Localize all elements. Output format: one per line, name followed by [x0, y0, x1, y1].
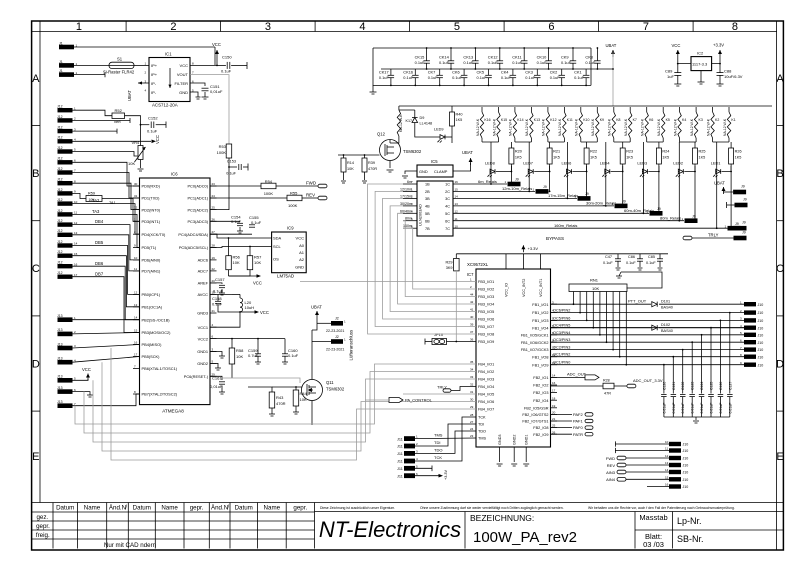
svg-text:10K: 10K: [236, 354, 243, 359]
svg-text:VCC: VCC: [180, 63, 189, 68]
svg-text:NA-12 W-K: NA-12 W-K: [575, 118, 579, 136]
svg-text:C150: C150: [222, 55, 232, 60]
svg-text:R40: R40: [456, 113, 463, 117]
svg-text:Datum: Datum: [235, 505, 253, 512]
svg-text:0.1uF: 0.1uF: [603, 261, 613, 265]
svg-text:CK13: CK13: [463, 55, 473, 60]
svg-text:13: 13: [134, 303, 138, 307]
svg-text:K14: K14: [517, 118, 523, 122]
resistor R26 1K5: [729, 148, 734, 164]
wire IC2 out: [712, 57, 720, 64]
svg-text:PC6(RESET-): PC6(RESET-): [184, 374, 209, 379]
svg-text:0.1uF: 0.1uF: [288, 353, 299, 358]
wire IC1 GND: [190, 92, 198, 97]
svg-text:J12: J12: [57, 146, 63, 150]
svg-text:J12: J12: [57, 136, 63, 140]
svg-text:TCK: TCK: [434, 455, 442, 460]
svg-text:10K: 10K: [347, 167, 354, 171]
svg-text:FWD: FWD: [606, 456, 615, 461]
svg-text:AIN4: AIN4: [606, 477, 616, 482]
capacitor C123: [691, 342, 693, 393]
resistor network RN1 body: [569, 284, 627, 292]
resistor network K13: [530, 112, 533, 138]
svg-text:Q12: Q12: [377, 132, 386, 137]
svg-text:J11: J11: [397, 445, 403, 449]
svg-text:NA-12 W-K: NA-12 W-K: [723, 118, 727, 136]
resistor R55: [210, 197, 287, 199]
resistor network K1: [727, 112, 731, 138]
connector J13 pin3: [58, 346, 73, 351]
net label TA2 to IC6 PD4: [73, 204, 140, 235]
svg-text:PB2(SS-/OC1B): PB2(SS-/OC1B): [142, 317, 171, 322]
wire GND2: [210, 363, 218, 368]
net label DB5 to IC6 PB0: [73, 246, 140, 295]
svg-text:ADC_OUT: ADC_OUT: [567, 372, 587, 377]
power UBAT at Q11: [316, 311, 318, 318]
svg-text:Datum: Datum: [133, 505, 151, 512]
connector J12 pin15: [58, 254, 73, 258]
net TCK: [415, 417, 476, 461]
svg-text:10K: 10K: [254, 260, 261, 265]
svg-text:J9: J9: [742, 231, 746, 235]
svg-text:R56: R56: [233, 255, 241, 260]
svg-text:BAS40: BAS40: [661, 306, 673, 310]
wire J10 row1: [615, 443, 669, 445]
resistor R43: [269, 392, 275, 408]
svg-text:PTT_OUT: PTT_OUT: [628, 299, 647, 304]
svg-text:C86: C86: [628, 255, 635, 259]
relay rail top: [399, 105, 772, 107]
svg-text:FB2_IO5/GSR: FB2_IO5/GSR: [524, 406, 549, 410]
connector J9 TRLY: [734, 236, 747, 241]
resistor network K15: [497, 112, 500, 138]
svg-text:OS: OS: [273, 257, 279, 262]
svg-text:16: 16: [455, 180, 459, 184]
svg-text:7: 7: [643, 21, 649, 33]
svg-text:44: 44: [470, 293, 474, 297]
svg-text:17: 17: [134, 353, 138, 357]
svg-text:4: 4: [359, 21, 365, 33]
wire resnet pair join: [680, 141, 697, 143]
svg-text:3K9: 3K9: [446, 266, 453, 270]
svg-text:NA-12 W-K: NA-12 W-K: [690, 118, 694, 136]
svg-text:TA1: TA1: [109, 201, 116, 205]
svg-text:C122: C122: [681, 382, 685, 390]
svg-text:1K5: 1K5: [662, 156, 669, 160]
svg-text:PAF1: PAF1: [573, 419, 583, 424]
svg-text:R57: R57: [254, 255, 262, 260]
svg-text:Ohne unsere Zustimmung darf si: Ohne unsere Zustimmung darf sie weder ve…: [420, 506, 564, 510]
svg-text:K9: K9: [600, 118, 604, 122]
svg-text:K2: K2: [715, 118, 719, 122]
power UBAT feeding cap bank: [612, 50, 614, 57]
resistor R22 1K5: [584, 148, 589, 164]
net TMS: [415, 437, 476, 440]
svg-text:CK15: CK15: [415, 55, 425, 60]
svg-text:12: 12: [74, 221, 78, 225]
wire J12-13 to IC6 PD7: [73, 235, 140, 271]
capacitor C155: [210, 233, 252, 235]
svg-text:12m-10m_Relais: 12m-10m_Relais: [502, 186, 532, 191]
svg-text:J10: J10: [758, 311, 764, 315]
svg-text:100K: 100K: [264, 191, 274, 196]
svg-text:FB1_I/O8: FB1_I/O8: [532, 355, 548, 359]
svg-text:J12: J12: [57, 198, 63, 202]
svg-text:31: 31: [134, 194, 138, 198]
svg-text:PD1(TXD): PD1(TXD): [142, 196, 161, 201]
wire LED LED1 to relay row: [716, 172, 718, 229]
svg-text:Lüfteranschluss: Lüfteranschluss: [349, 329, 354, 361]
svg-text:0.01uF: 0.01uF: [710, 403, 714, 414]
connector J2 fan 1: [331, 321, 343, 326]
svg-text:33: 33: [470, 375, 474, 379]
svg-text:80m: 80m: [405, 217, 412, 221]
wire J11-5 ground: [415, 467, 432, 469]
wire relay row 160m_Relais: [453, 227, 727, 229]
net label DB6 to IC6 PB2: [73, 266, 140, 320]
svg-text:28: 28: [212, 244, 216, 248]
svg-text:C126: C126: [719, 382, 723, 390]
svg-text:VCC2: VCC2: [198, 336, 208, 341]
net PA_CONTROL: [389, 398, 403, 403]
svg-text:OC1/PIN0: OC1/PIN0: [553, 361, 570, 365]
svg-text:IC1: IC1: [165, 52, 172, 57]
svg-text:16: 16: [552, 381, 556, 385]
svg-text:K6: K6: [649, 118, 653, 122]
svg-text:NA-12 W-K: NA-12 W-K: [525, 118, 529, 136]
svg-text:FB3_I/O7: FB3_I/O7: [478, 325, 494, 329]
svg-text:J12: J12: [57, 219, 63, 223]
svg-text:R53: R53: [219, 144, 227, 149]
IC7 right pin stubs and numbers: [551, 303, 558, 305]
wire IC5 gnd: [405, 171, 417, 174]
svg-text:17: 17: [74, 273, 78, 277]
svg-text:NA-12 W-K: NA-12 W-K: [608, 118, 612, 136]
wire J12-6 to IC6 PD0: [73, 162, 140, 186]
svg-text:10K: 10K: [128, 161, 135, 166]
svg-text:IC2: IC2: [697, 51, 704, 56]
svg-text:PATR: PATR: [573, 432, 583, 437]
svg-text:J13: J13: [57, 357, 63, 361]
svg-text:DB4: DB4: [95, 219, 104, 224]
svg-text:23: 23: [212, 182, 216, 186]
svg-text:31: 31: [470, 390, 474, 394]
RN1 output verticals: [573, 292, 575, 305]
fuse S1: [109, 62, 134, 68]
cap bank ground rail: [664, 416, 730, 418]
svg-text:D: D: [776, 359, 784, 371]
svg-text:TMS: TMS: [478, 437, 486, 441]
resistor network K17: [397, 110, 400, 136]
wire R59 to IC6 PD3: [102, 199, 140, 222]
net TDI: [415, 424, 476, 446]
svg-text:E: E: [776, 451, 783, 463]
svg-text:11: 11: [134, 267, 137, 271]
resistor R57 pullup: [247, 256, 253, 270]
connector J12 pin14: [58, 243, 73, 247]
svg-text:23: 23: [470, 434, 474, 438]
frame column numbers: [76, 21, 738, 33]
svg-text:J12: J12: [57, 178, 63, 182]
svg-text:Datum: Datum: [56, 505, 74, 512]
svg-text:1: 1: [76, 21, 82, 33]
svg-text:22-23-2021: 22-23-2021: [326, 347, 344, 351]
wire relay row 30m-20m_Relais: [453, 205, 614, 207]
svg-text:R24: R24: [662, 150, 669, 154]
svg-text:FB1_I/O6/GCK2: FB1_I/O6/GCK2: [521, 341, 549, 345]
svg-text:J11: J11: [397, 437, 403, 441]
power VCC at IC1: [216, 50, 218, 57]
svg-text:A: A: [776, 73, 784, 85]
svg-text:FB2_IO7/GTS1: FB2_IO7/GTS1: [522, 420, 548, 424]
svg-text:REV: REV: [607, 463, 616, 468]
svg-text:PB1(OC1A): PB1(OC1A): [142, 305, 163, 310]
svg-text:16: 16: [665, 483, 669, 487]
svg-text:CK3: CK3: [525, 70, 533, 75]
svg-text:10: 10: [134, 256, 138, 260]
svg-text:PB6(XTAL1/TOSC1): PB6(XTAL1/TOSC1): [142, 366, 178, 371]
wire clamp to UBAT: [453, 163, 471, 171]
svg-text:VR4: VR4: [132, 140, 141, 145]
svg-text:CK6: CK6: [452, 70, 460, 75]
svg-text:GND3: GND3: [498, 434, 502, 445]
svg-text:LED8: LED8: [485, 161, 495, 166]
svg-text:27: 27: [470, 420, 474, 424]
svg-text:FB3_I/O1: FB3_I/O1: [478, 280, 494, 284]
svg-text:C157: C157: [215, 277, 225, 282]
svg-text:OC3/PIN3: OC3/PIN3: [553, 338, 570, 342]
capacitor C152: [141, 124, 150, 126]
connector J1 pin1: [59, 45, 74, 50]
wire IC1 VOUT net: [190, 75, 229, 144]
svg-text:Name: Name: [84, 505, 101, 512]
svg-text:C47: C47: [605, 255, 612, 259]
svg-text:FB4_I/O4: FB4_I/O4: [478, 385, 494, 389]
svg-text:0.01uF: 0.01uF: [691, 403, 695, 414]
capacitor C122: [682, 350, 684, 394]
svg-text:15: 15: [74, 252, 78, 256]
svg-text:NA-12 W-K: NA-12 W-K: [657, 118, 661, 136]
resistor network K2: [711, 112, 714, 138]
resistor network K3: [694, 112, 697, 138]
svg-text:PD4(XCK/T0): PD4(XCK/T0): [142, 232, 166, 237]
svg-text:R29: R29: [446, 261, 453, 265]
svg-text:R22: R22: [590, 150, 597, 154]
resistor R24 1K5: [656, 148, 661, 164]
wire relay row 60m-40m_Relais: [453, 212, 649, 214]
svg-text:IP-: IP-: [151, 81, 157, 86]
resistor network K14: [513, 112, 516, 138]
svg-text:4B: 4B: [425, 205, 430, 209]
svg-text:03 /03: 03 /03: [643, 540, 664, 549]
svg-text:ATMEGA8: ATMEGA8: [162, 409, 184, 414]
svg-text:0.1uF: 0.1uF: [626, 261, 636, 265]
IC U6 ATMEGA8 body: [140, 178, 211, 405]
power rail +3.3V bypass: [456, 253, 668, 255]
connector J2 fan 2: [331, 339, 343, 344]
svg-text:15: 15: [455, 188, 459, 192]
IC7 XC9572XL body: [476, 269, 551, 447]
svg-text:FB1_I/O1: FB1_I/O1: [532, 303, 548, 307]
svg-text:J13: J13: [57, 342, 63, 346]
wire J10 row7: [647, 486, 669, 488]
svg-text:14: 14: [665, 468, 669, 472]
wire J12-15 to IC6 PB1: [73, 256, 140, 307]
svg-text:10K: 10K: [300, 397, 307, 402]
svg-text:SCL: SCL: [273, 244, 282, 249]
svg-text:J10: J10: [758, 303, 764, 307]
svg-text:K11: K11: [567, 118, 573, 122]
title BEZEICHNUNG 100W_PA_rev2: [470, 513, 577, 546]
svg-text:0.1uF: 0.1uF: [212, 302, 223, 307]
svg-text:J12: J12: [57, 167, 63, 171]
resistor R52: [73, 110, 113, 116]
capacitor C85: [657, 258, 663, 260]
connector J9 (6m_Relais): [508, 182, 521, 187]
svg-text:NA-12 W-K: NA-12 W-K: [542, 118, 546, 136]
svg-text:ADC7: ADC7: [198, 269, 208, 274]
svg-text:OC6/PIN2: OC6/PIN2: [553, 309, 570, 313]
wire IC1 FILTER to C151: [190, 83, 205, 86]
net label DB7 to IC6 PB3: [73, 277, 140, 333]
svg-text:IC7: IC7: [467, 272, 474, 277]
svg-text:DB5: DB5: [95, 240, 104, 245]
resistor network K7: [629, 112, 632, 138]
svg-text:PAF2: PAF2: [573, 412, 583, 417]
resistor network K6: [645, 112, 648, 138]
svg-text:160m: 160m: [403, 224, 412, 228]
resistor R54: [210, 185, 261, 187]
svg-text:0.01uF: 0.01uF: [662, 403, 666, 414]
svg-text:30: 30: [134, 182, 138, 186]
svg-text:14: 14: [552, 374, 556, 378]
svg-text:AIN3: AIN3: [606, 470, 616, 475]
svg-text:16: 16: [134, 341, 138, 345]
svg-text:CK9: CK9: [561, 55, 569, 60]
resistor network K5: [662, 112, 665, 138]
svg-text:GND2: GND2: [513, 434, 517, 445]
svg-text:160m_Relais: 160m_Relais: [554, 223, 577, 228]
power +3.3V at IC2: [719, 50, 721, 57]
svg-text:NA-12 W-K: NA-12 W-K: [673, 118, 677, 136]
svg-text:TDO: TDO: [478, 430, 486, 434]
svg-text:0.01uF: 0.01uF: [672, 403, 676, 414]
svg-text:FB2_IO6/GTS2: FB2_IO6/GTS2: [522, 413, 548, 417]
svg-text:J12: J12: [57, 126, 63, 130]
svg-text:freig.: freig.: [36, 532, 50, 539]
svg-text:R14: R14: [347, 161, 354, 165]
svg-text:2C: 2C: [445, 190, 450, 194]
svg-text:K16: K16: [484, 118, 490, 122]
svg-text:29: 29: [470, 405, 474, 409]
capacitor C151: [202, 87, 209, 89]
svg-text:0.1uF: 0.1uF: [226, 172, 236, 176]
svg-text:11: 11: [665, 447, 668, 451]
connector J9 (17m-15m_Relais): [578, 196, 591, 201]
svg-text:CK2: CK2: [550, 70, 558, 75]
svg-text:27: 27: [212, 230, 216, 234]
wire R29 down to JP10 row: [455, 271, 457, 342]
connector J9 spare: [727, 204, 735, 206]
svg-text:0.7uF: 0.7uF: [248, 353, 259, 358]
svg-text:30/20m: 30/20m: [400, 202, 412, 206]
svg-text:R23: R23: [626, 150, 633, 154]
svg-text:J2: J2: [335, 317, 339, 321]
IC9 LM75 body: [272, 232, 307, 273]
svg-text:K1: K1: [731, 118, 735, 122]
svg-text:41: 41: [470, 308, 474, 312]
wire J1-1 to IC1 IP+: [74, 46, 215, 48]
svg-text:J10: J10: [683, 471, 689, 475]
svg-text:J11: J11: [397, 452, 403, 456]
svg-text:24: 24: [470, 427, 474, 431]
svg-text:J13: J13: [57, 328, 63, 332]
wire reset net gray: [222, 378, 300, 383]
connector J12 pin17: [58, 275, 73, 279]
svg-text:15: 15: [134, 329, 138, 333]
svg-text:0.1uF: 0.1uF: [231, 219, 242, 224]
svg-text:5B: 5B: [425, 212, 430, 216]
svg-text:PC1(ADC1): PC1(ADC1): [187, 196, 208, 201]
wire IC1 VCC pin: [190, 57, 217, 65]
svg-text:16: 16: [74, 262, 78, 266]
svg-text:PAF0: PAF0: [573, 425, 583, 430]
svg-text:1K5: 1K5: [456, 118, 463, 122]
svg-text:0.1uF: 0.1uF: [147, 129, 158, 134]
svg-text:C153: C153: [227, 160, 236, 164]
wire Q11 source: [311, 401, 313, 426]
svg-text:E: E: [32, 451, 39, 463]
svg-text:470R: 470R: [368, 167, 377, 171]
svg-text:OC1/PIN2: OC1/PIN2: [553, 353, 570, 357]
svg-text:J11: J11: [397, 467, 403, 471]
svg-text:UBAT: UBAT: [606, 43, 617, 48]
svg-text:CK11: CK11: [512, 55, 521, 60]
svg-text:PB5(SCK): PB5(SCK): [142, 354, 161, 359]
svg-text:S1: S1: [117, 57, 123, 62]
svg-text:R39: R39: [368, 161, 375, 165]
power VCC at R56/R57: [229, 275, 259, 277]
capacitor C153: [229, 166, 237, 168]
wire JP10 to IC7: [447, 341, 477, 343]
wire J12-2 stub: [73, 119, 131, 121]
svg-text:J10: J10: [683, 478, 689, 482]
net label DB4 to IC6 PD6: [73, 225, 140, 260]
svg-text:C85: C85: [648, 255, 655, 259]
svg-text:20: 20: [552, 411, 556, 415]
svg-text:21: 21: [212, 309, 216, 313]
resistor network K8: [612, 112, 615, 138]
svg-text:0.1uF: 0.1uF: [646, 261, 656, 265]
svg-text:PB7(XTAL2/TOSC2): PB7(XTAL2/TOSC2): [142, 392, 178, 397]
svg-text:J12: J12: [57, 250, 63, 254]
svg-text:OC5/PIN6: OC5/PIN6: [553, 316, 570, 320]
wire resnet pair join: [647, 141, 664, 143]
svg-text:C89: C89: [665, 69, 673, 74]
wire J1-2 to fuse S1: [74, 64, 109, 66]
svg-text:26: 26: [552, 430, 556, 434]
svg-text:0.01uF: 0.01uF: [728, 403, 732, 414]
svg-text:39: 39: [470, 323, 474, 327]
diode D102 BAS40: [551, 327, 652, 329]
svg-text:15: 15: [665, 476, 669, 480]
wire resnet pair join: [713, 141, 729, 143]
svg-text:RN1: RN1: [590, 278, 599, 283]
connector J12 pin3: [58, 129, 73, 133]
svg-text:BEZEICHNUNG:: BEZEICHNUNG:: [470, 513, 534, 523]
svg-text:C125: C125: [710, 382, 714, 390]
power VCC near VR4: [73, 140, 152, 142]
